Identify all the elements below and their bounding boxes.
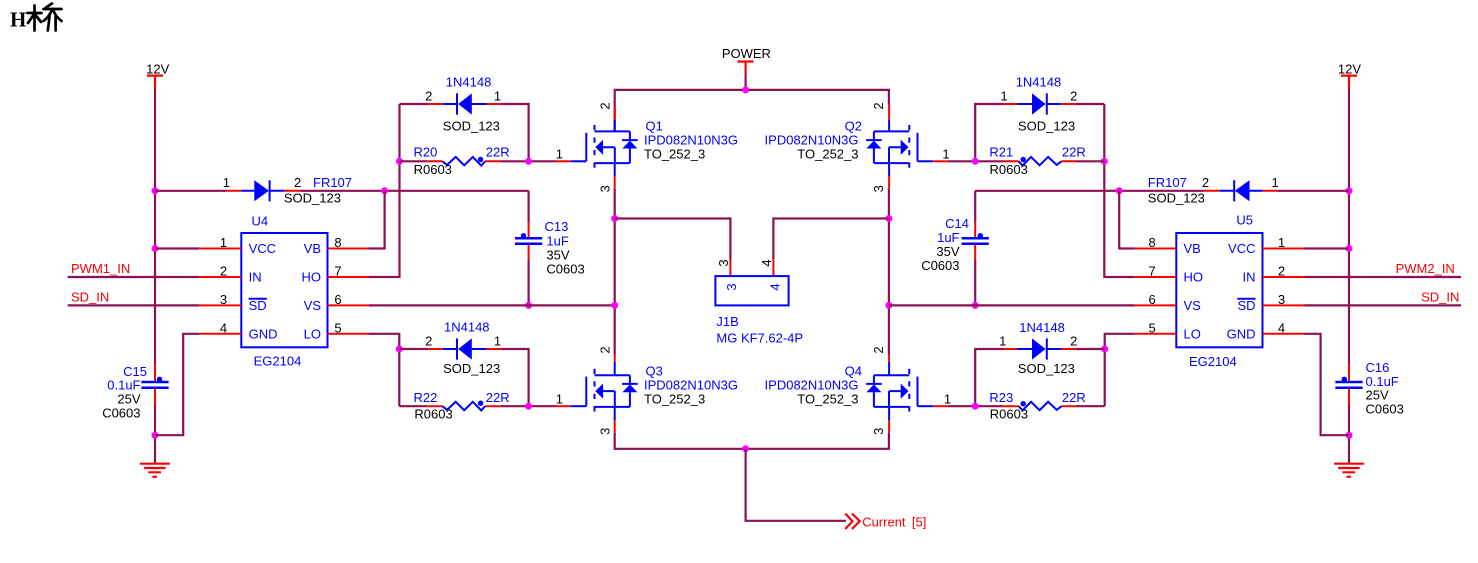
svg-text:1: 1 [494, 89, 501, 104]
wire 1N4148 top-right row [975, 104, 1104, 161]
svg-text:VCC: VCC [1228, 241, 1255, 256]
svg-text:SOD_123: SOD_123 [1018, 361, 1075, 376]
wire R22 to Q3 gate [500, 405, 556, 407]
svg-text:EG2104: EG2104 [254, 353, 302, 368]
junction LO/1N4148 bottom-left [396, 346, 403, 353]
wire SD_IN left [68, 304, 200, 306]
svg-text:3: 3 [220, 292, 227, 307]
svg-text:3: 3 [597, 185, 612, 192]
svg-text:GND: GND [1227, 327, 1256, 342]
junction LO/1N4148 bottom-right [1101, 346, 1108, 353]
svg-text:1uF: 1uF [937, 230, 959, 245]
wire VCC left [155, 247, 199, 249]
pin 4 GND U4 [199, 333, 241, 335]
svg-text:VS: VS [1184, 298, 1202, 313]
svg-text:R0603: R0603 [414, 162, 452, 177]
capacitor C15 [102, 364, 168, 421]
svg-text:R23: R23 [989, 390, 1013, 405]
svg-text:R0603: R0603 [990, 162, 1028, 177]
pin 3 SD U5 [1263, 304, 1305, 306]
resistor R22 [399, 390, 509, 422]
wire HO column right [1104, 104, 1135, 277]
svg-text:C15: C15 [123, 364, 147, 379]
pin 2 IN U4 [199, 276, 241, 278]
wire R20 to Q1 gate [500, 160, 556, 162]
wire 1N4148 bottom-right row [975, 349, 1104, 406]
svg-text:SD: SD [249, 298, 267, 313]
diode D 1N4148 bottom-left [425, 320, 501, 376]
wire VB column right [1119, 191, 1135, 249]
pin 1 VCC U4 [199, 248, 241, 250]
wire Q2 source column [888, 189, 890, 355]
svg-text:SOD_123: SOD_123 [1148, 190, 1205, 205]
svg-text:35V: 35V [546, 247, 569, 262]
junction HO/R20 left [396, 158, 403, 165]
power POWER [722, 46, 771, 74]
svg-text:J1B: J1B [716, 314, 738, 329]
svg-text:7: 7 [1148, 264, 1155, 279]
svg-text:Q2: Q2 [845, 119, 862, 134]
svg-text:3: 3 [716, 259, 731, 266]
svg-text:1: 1 [556, 391, 563, 406]
svg-text:SD: SD [1237, 298, 1255, 313]
svg-text:2: 2 [425, 334, 432, 349]
svg-text:4: 4 [220, 320, 227, 335]
svg-text:HO: HO [302, 270, 322, 285]
svg-text:SOD_123: SOD_123 [443, 361, 500, 376]
pin 4 GND U5 [1263, 333, 1305, 335]
svg-text:R0603: R0603 [990, 406, 1028, 421]
capacitor C13 [515, 191, 585, 306]
svg-text:2: 2 [1070, 89, 1077, 104]
wire FR107 to VB column [300, 190, 528, 192]
svg-text:1: 1 [1000, 89, 1007, 104]
svg-text:2: 2 [1070, 334, 1077, 349]
svg-text:6: 6 [334, 292, 341, 307]
svg-text:5: 5 [1148, 320, 1155, 335]
wire SD_IN right [1305, 304, 1462, 306]
svg-text:2: 2 [597, 346, 612, 353]
svg-text:2: 2 [220, 264, 227, 279]
wire VS row right [889, 304, 1135, 306]
svg-text:SOD_123: SOD_123 [284, 190, 341, 205]
wire current drop [746, 449, 846, 521]
wire 12V rail right lower [1348, 405, 1350, 435]
power 12V right [1338, 62, 1361, 89]
junction 12V/VCC left [152, 245, 159, 252]
svg-text:8: 8 [1148, 235, 1155, 250]
resistor R23 [989, 390, 1085, 422]
junction R23/gate column right [972, 403, 979, 410]
pin 5 LO U5 [1135, 333, 1177, 335]
svg-text:FR107: FR107 [1148, 175, 1187, 190]
junction C13/VS row [525, 302, 532, 309]
svg-text:3: 3 [597, 428, 612, 435]
wire R21 to Q2 gate [948, 160, 1004, 162]
svg-text:25V: 25V [1366, 388, 1389, 403]
svg-text:7: 7 [334, 264, 341, 279]
svg-text:12V: 12V [1338, 62, 1361, 77]
svg-text:8: 8 [334, 235, 341, 250]
junction R22/gate column [525, 403, 532, 410]
wire VCC right [1305, 247, 1350, 249]
svg-text:LO: LO [304, 327, 321, 342]
svg-text:IPD082N10N3G: IPD082N10N3G [644, 378, 738, 393]
svg-text:1: 1 [220, 235, 227, 250]
svg-text:U4: U4 [252, 214, 269, 229]
svg-text:C0603: C0603 [546, 261, 584, 276]
svg-text:IPD082N10N3G: IPD082N10N3G [644, 133, 738, 148]
svg-text:1: 1 [999, 334, 1006, 349]
svg-text:TO_252_3: TO_252_3 [797, 147, 858, 162]
junction Q2 source / J1B [885, 215, 892, 222]
svg-text:3: 3 [871, 185, 886, 192]
IC U5 EG2104 [1176, 212, 1262, 368]
svg-text:22R: 22R [1062, 144, 1086, 159]
wire top rail [615, 90, 889, 131]
svg-text:2: 2 [1278, 264, 1285, 279]
junction VB column top [381, 187, 388, 194]
wire bottom rail [615, 433, 889, 449]
transistor Q2 [765, 102, 950, 192]
svg-text:1: 1 [494, 334, 501, 349]
wire Q1 source column [614, 189, 616, 355]
svg-text:PWM2_IN: PWM2_IN [1396, 261, 1455, 276]
wire 12V rail left [154, 88, 156, 364]
svg-text:EG2104: EG2104 [1189, 354, 1237, 369]
wire VB column left [369, 191, 385, 249]
svg-text:2: 2 [871, 346, 886, 353]
svg-text:1: 1 [944, 391, 951, 406]
ground right [1334, 435, 1364, 477]
wire J1B pin3 branch [615, 219, 731, 260]
svg-text:1: 1 [1278, 235, 1285, 250]
svg-text:1N4148: 1N4148 [444, 320, 490, 335]
svg-text:22R: 22R [1062, 390, 1086, 405]
junction ground right [1346, 432, 1353, 439]
wire LO column left [369, 334, 399, 406]
diode D 1N4148 top-left [425, 75, 501, 134]
wire VS row left [369, 304, 615, 306]
svg-text:1N4148: 1N4148 [1019, 320, 1065, 335]
pin 7 HO U4 [328, 276, 370, 278]
svg-text:IPD082N10N3G: IPD082N10N3G [765, 133, 859, 148]
wire R23 to Q4 gate [948, 405, 1004, 407]
svg-text:IN: IN [249, 270, 262, 285]
svg-text:C14: C14 [945, 216, 969, 231]
transistor Q4 [765, 346, 952, 435]
wire R23 to corner [1077, 405, 1105, 407]
diode D FR107 left [223, 175, 352, 205]
wire 12V rail right [1348, 88, 1350, 364]
junction ground left [152, 432, 159, 439]
junction VB column right [1116, 187, 1123, 194]
svg-text:1: 1 [1272, 175, 1279, 190]
svg-text:POWER: POWER [722, 46, 771, 61]
svg-text:R21: R21 [989, 144, 1013, 159]
svg-text:VS: VS [304, 298, 322, 313]
junction Q1 source / J1B [611, 215, 618, 222]
svg-text:C0603: C0603 [921, 258, 959, 273]
wire GND loop U4 [155, 334, 199, 435]
svg-text:3: 3 [871, 428, 886, 435]
svg-text:MG KF7.62-4P: MG KF7.62-4P [716, 331, 803, 346]
junction 12V/FR107 left [152, 187, 159, 194]
connector J1B [715, 259, 803, 346]
transistor Q1 [556, 102, 738, 192]
wire PWM2_IN [1305, 276, 1462, 278]
wire PWM1_IN [68, 276, 200, 278]
svg-text:SD_IN: SD_IN [71, 290, 109, 305]
svg-text:R22: R22 [414, 390, 438, 405]
svg-text:1: 1 [942, 146, 949, 161]
svg-text:C0603: C0603 [1366, 401, 1404, 416]
svg-text:FR107: FR107 [313, 175, 352, 190]
pin 2 IN U5 [1263, 276, 1305, 278]
svg-text:VB: VB [304, 241, 321, 256]
svg-text:3: 3 [1278, 292, 1285, 307]
junction 12V/FR107 right [1346, 187, 1353, 194]
wire 1N4148 top-left row [400, 104, 529, 161]
pin 6 VS U5 [1135, 304, 1177, 306]
pin 7 HO U5 [1135, 276, 1177, 278]
svg-text:35V: 35V [936, 244, 959, 259]
svg-text:2: 2 [597, 102, 612, 109]
svg-text:0.1uF: 0.1uF [107, 378, 140, 393]
svg-text:6: 6 [1148, 292, 1155, 307]
svg-text:1: 1 [556, 146, 563, 161]
svg-text:1N4148: 1N4148 [446, 75, 492, 90]
svg-text:TO_252_3: TO_252_3 [644, 392, 705, 407]
wire 12V rail left lower [154, 405, 156, 435]
svg-text:4: 4 [759, 259, 774, 266]
svg-text:2: 2 [1202, 175, 1209, 190]
svg-text:4: 4 [1278, 320, 1285, 335]
ground left [140, 435, 170, 477]
svg-text:IN: IN [1243, 270, 1256, 285]
diode D FR107 right [1148, 175, 1279, 205]
svg-text:2: 2 [294, 175, 301, 190]
svg-text:HO: HO [1184, 270, 1204, 285]
svg-text:1uF: 1uF [546, 234, 568, 249]
svg-text:1: 1 [223, 175, 230, 190]
svg-text:SOD_123: SOD_123 [443, 118, 500, 133]
svg-text:VCC: VCC [249, 241, 276, 256]
junction VS row / Q column left [611, 302, 618, 309]
pin 8 VB U4 [328, 248, 370, 250]
pin 5 LO U4 [328, 333, 370, 335]
svg-text:2: 2 [871, 102, 886, 109]
svg-text:3: 3 [724, 283, 739, 290]
svg-text:TO_252_3: TO_252_3 [797, 392, 858, 407]
svg-text:22R: 22R [486, 144, 510, 159]
pin 8 VB U5 [1135, 248, 1177, 250]
svg-text:[5]: [5] [912, 515, 926, 530]
junction POWER/top rail [742, 86, 749, 93]
svg-text:12V: 12V [146, 62, 169, 77]
svg-text:C13: C13 [545, 219, 569, 234]
resistor R21 [989, 144, 1104, 176]
svg-text:VB: VB [1184, 241, 1201, 256]
wire GND loop U5 [1305, 334, 1350, 435]
wire FR107 row left [155, 190, 226, 192]
wire FR107 right row [975, 190, 1349, 192]
wire HO column left [369, 104, 400, 277]
svg-text:GND: GND [249, 327, 278, 342]
svg-text:4: 4 [768, 283, 783, 290]
diode D 1N4148 top-right [1000, 75, 1077, 134]
junction R21/gate column right [972, 158, 979, 165]
capacitor C14 [921, 191, 989, 306]
port Current [5] [845, 514, 926, 530]
wire LO column right [1105, 334, 1135, 406]
transistor Q3 [556, 346, 738, 435]
svg-text:U5: U5 [1236, 212, 1253, 227]
wire 1N4148 bottom-left row [399, 349, 528, 406]
junction 12V/VCC right [1346, 245, 1353, 252]
svg-text:Q1: Q1 [646, 119, 663, 134]
diode D 1N4148 bottom-right [999, 320, 1077, 376]
resistor R20 [400, 144, 510, 176]
svg-text:SOD_123: SOD_123 [1018, 118, 1075, 133]
svg-text:C0603: C0603 [102, 406, 140, 421]
junction R20/gate column [525, 158, 532, 165]
pin 6 VS U4 [328, 304, 370, 306]
svg-text:TO_252_3: TO_252_3 [644, 147, 705, 162]
wire POWER drop [744, 75, 746, 90]
svg-text:H: H [10, 8, 26, 32]
svg-text:Current: Current [862, 515, 906, 530]
svg-text:LO: LO [1184, 327, 1201, 342]
svg-text:22R: 22R [486, 390, 510, 405]
svg-text:R20: R20 [414, 144, 438, 159]
svg-text:5: 5 [334, 320, 341, 335]
svg-text:IPD082N10N3G: IPD082N10N3G [765, 378, 859, 393]
title H (bridge) [10, 4, 62, 32]
svg-text:Q4: Q4 [845, 364, 862, 379]
wire J1B pin4 branch [773, 219, 889, 260]
capacitor C16 [1335, 360, 1403, 416]
power 12V left [146, 62, 169, 89]
junction HO/R21 right [1101, 158, 1108, 165]
svg-text:R0603: R0603 [414, 406, 452, 421]
IC U4 EG2104 [241, 214, 327, 369]
svg-text:1N4148: 1N4148 [1016, 75, 1062, 90]
junction bottom rail / current [742, 445, 749, 452]
svg-text:PWM1_IN: PWM1_IN [71, 261, 130, 276]
pin 3 SD U4 [199, 304, 241, 306]
svg-text:Q3: Q3 [646, 364, 663, 379]
svg-text:25V: 25V [117, 392, 140, 407]
svg-text:2: 2 [425, 89, 432, 104]
pin 1 VCC U5 [1263, 248, 1305, 250]
junction C14/VS row [972, 302, 979, 309]
junction VS row / Q column right [885, 302, 892, 309]
svg-text:SD_IN: SD_IN [1421, 290, 1459, 305]
